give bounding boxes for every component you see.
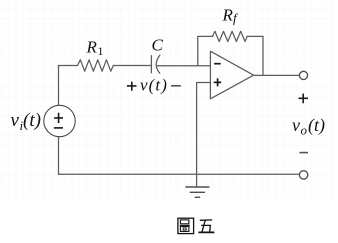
svg-text:R: R — [86, 38, 98, 57]
svg-text:o: o — [301, 123, 308, 138]
svg-text:(t): (t) — [308, 115, 325, 136]
svg-text:v(t): v(t) — [140, 76, 168, 95]
svg-text:R: R — [222, 6, 234, 25]
svg-text:C: C — [152, 36, 164, 55]
svg-text:(t): (t) — [23, 110, 41, 131]
svg-text:v: v — [11, 110, 20, 131]
svg-text:v: v — [292, 115, 300, 135]
svg-text:1: 1 — [98, 44, 104, 58]
